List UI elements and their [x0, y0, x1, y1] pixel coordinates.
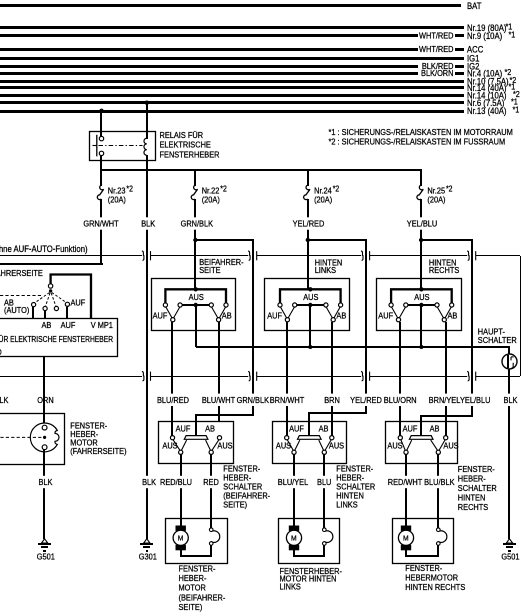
driver master switch terminal box: [0, 319, 118, 357]
relay contact blade: [96, 135, 98, 157]
Beifahrerseite common contacts: [179, 450, 183, 454]
svg-text:BLK: BLK: [504, 395, 519, 405]
wire label RED/BLU: [179, 476, 183, 488]
wire label BLU/YEL: [292, 476, 296, 488]
contact AUF (AUTO): [65, 302, 69, 306]
wire label BLU: [322, 476, 326, 488]
svg-text:(FAHRERSEITE): (FAHRERSEITE): [70, 447, 127, 457]
svg-text:*2: *2: [446, 184, 452, 194]
relay coil: [144, 138, 147, 155]
svg-text:HEBER-: HEBER-: [179, 574, 207, 584]
svg-text:*2: *2: [333, 184, 339, 194]
junction on bus Nr.6 (7.5A): [145, 101, 149, 105]
hinten rechts feed bar: [391, 289, 452, 305]
svg-text:BLK: BLK: [39, 478, 54, 488]
svg-text:BRN/WHT: BRN/WHT: [270, 395, 305, 405]
feed wire into master switch: [420, 240, 422, 290]
hinten rechts outer contacts: [389, 303, 393, 307]
junction feed split: [419, 238, 423, 242]
wire label BRN/WHT: [285, 394, 289, 406]
svg-text:FAHRERSEITE: FAHRERSEITE: [0, 268, 43, 278]
svg-text:BLU: BLU: [317, 478, 332, 488]
svg-text:LINKS: LINKS: [280, 582, 301, 592]
svg-text:FENSTERHEBER: FENSTERHEBER: [160, 150, 220, 160]
Beifahrerseite AUS output to bus: [195, 305, 197, 347]
connector break on bottom boundary: [142, 375, 151, 377]
svg-text:SCHALTER: SCHALTER: [478, 336, 517, 346]
connector break on top boundary: [248, 254, 257, 256]
svg-text:SEITE): SEITE): [223, 500, 247, 510]
YEL/BLU jog into rear-right door switch: [420, 415, 473, 417]
hinten rechts common contacts: [396, 318, 400, 322]
svg-text:GRN/BLK: GRN/BLK: [181, 219, 214, 229]
svg-text:SEITE: SEITE: [199, 265, 220, 275]
fuse feed line from relay: [100, 169, 422, 171]
svg-text:Nr.9 (10A): Nr.9 (10A): [467, 30, 502, 41]
driver switch positions dashed blades: [35, 293, 50, 304]
branch wire to door switch: [308, 239, 367, 241]
wire label BRN/YEL: [444, 394, 448, 406]
svg-text:YEL/RED: YEL/RED: [293, 219, 325, 229]
svg-text:Nr.24: Nr.24: [314, 186, 332, 196]
branch wire YEL/BLU vertical / HAUPTSCHALTER box left edge: [471, 240, 473, 416]
hinten rechts motor bottom wire: [405, 550, 407, 556]
door switch Beifahrerseite box: [159, 422, 234, 464]
relay actuation dash-dot link: [99, 145, 143, 147]
svg-text:YEL/BLU: YEL/BLU: [460, 395, 491, 405]
wire below fuse Nr.24: [307, 199, 309, 240]
svg-text:BLK: BLK: [0, 395, 9, 405]
contact AUF: [54, 306, 58, 310]
wire label BRN: [330, 394, 334, 406]
hinten rechts output wires: [405, 454, 407, 526]
relay contact terminals: [99, 136, 103, 140]
relay K1 RELAIS FUER ELEKTRISCHE FENSTERHEBER box: [90, 132, 156, 161]
svg-text:BLK: BLK: [142, 478, 157, 488]
connector break on top boundary: [361, 254, 370, 256]
svg-text:(20A): (20A): [427, 195, 445, 205]
hinten links output wires: [293, 454, 295, 526]
svg-text:AUS: AUS: [162, 441, 177, 451]
wire relay contact output: [100, 156, 102, 170]
master sub-switch Beifahrerseite box: [152, 279, 236, 331]
window motor Beifahrerseite box: [166, 519, 228, 564]
svg-text:G501: G501: [37, 552, 56, 562]
bus line Nr.6 (7.5A): [0, 101, 464, 104]
svg-text:BLU/WHT: BLU/WHT: [202, 395, 235, 405]
wire BRN/WHT: [286, 322, 288, 438]
bus line IG2: [0, 65, 418, 68]
hinten links AUF contact: [285, 436, 289, 440]
hinten rechts switch blades: [392, 307, 398, 318]
svg-text:BLK/ORN: BLK/ORN: [421, 69, 454, 79]
svg-text:(AUTO): (AUTO): [4, 305, 30, 315]
wire label BLU/ORN: [398, 394, 402, 406]
hinten links outer contacts: [278, 303, 282, 307]
svg-text:BLK: BLK: [141, 219, 156, 229]
svg-text:AUS: AUS: [303, 293, 318, 303]
driver sub-switch pivot: [48, 284, 52, 288]
svg-text:BRN/YEL: BRN/YEL: [429, 395, 461, 405]
wire from bus Nr.13 to relay contact: [100, 111, 102, 137]
svg-text:AB: AB: [41, 320, 51, 330]
window motor hinten rechts box: [393, 519, 454, 564]
svg-text:(20A): (20A): [314, 195, 332, 205]
contact AB: [43, 306, 47, 310]
wire BLU/WHT: [218, 322, 220, 422]
connector break on top boundary: [467, 254, 476, 256]
svg-text:FÜR ELEKTRISCHE FENSTERHEBER: FÜR ELEKTRISCHE FENSTERHEBER: [0, 334, 114, 344]
svg-text:SEITE): SEITE): [179, 603, 203, 612]
svg-text:AUF: AUF: [403, 424, 418, 434]
wire label RED/WHT: [404, 476, 408, 488]
svg-text:AUF: AUF: [153, 311, 168, 321]
wire BLU/ORN: [399, 322, 401, 438]
connector break on bottom boundary: [248, 375, 257, 377]
branch wire YEL/RED vertical: [365, 240, 367, 414]
master switch unit bottom boundary / connector row: [0, 376, 520, 377]
svg-text:AUF: AUF: [378, 311, 393, 321]
feed wire into master switch: [307, 240, 309, 290]
svg-text:HEBERMOTOR: HEBERMOTOR: [405, 573, 458, 583]
svg-text:RED/BLU: RED/BLU: [160, 478, 192, 488]
ground G501 driver: [41, 539, 47, 543]
window motor armature (M) with brushes: [401, 526, 411, 531]
wire feed line to fuse Nr.24: [307, 170, 309, 186]
hinten rechts AB contact: [444, 436, 448, 440]
svg-text:GRN/WHT: GRN/WHT: [83, 219, 118, 229]
connector grommet circle symbol: [502, 354, 517, 369]
wire relay coil to ground run (BLK): [146, 155, 148, 539]
feed wire into master switch: [194, 240, 196, 290]
svg-text:RECHTS: RECHTS: [429, 266, 459, 276]
svg-text:GRN/BLK: GRN/BLK: [237, 395, 270, 405]
hinten links switch blades: [280, 307, 286, 318]
hinten links motor bottom wire: [293, 550, 295, 556]
door switch hinten links box: [273, 422, 347, 464]
wire label RED: [209, 476, 213, 488]
svg-text:*1: *1: [509, 30, 516, 40]
wire label BLK: [507, 394, 511, 406]
circuit breaker (thermal protector) in motor: [324, 531, 333, 543]
svg-text:WHT/RED: WHT/RED: [419, 45, 454, 55]
wire label BLU/WHT: [217, 394, 221, 406]
door switch hinten rechts box: [386, 422, 458, 464]
svg-text:M: M: [403, 534, 409, 542]
svg-text:FENSTER-: FENSTER-: [179, 564, 216, 574]
svg-text:RELAIS FÜR: RELAIS FÜR: [160, 131, 204, 141]
svg-text:(20A): (20A): [108, 195, 126, 205]
wire feed line to fuse Nr.22: [194, 170, 196, 186]
connector break on bottom boundary: [467, 375, 476, 377]
svg-text:(BEIFAHRER-: (BEIFAHRER-: [179, 593, 226, 603]
AUS bus corner down to connector circle: [508, 347, 510, 354]
svg-text:M: M: [291, 534, 297, 542]
bus line Nr.4 (10A): [0, 72, 418, 75]
svg-text:Nr.25: Nr.25: [427, 186, 445, 196]
svg-text:V MP1: V MP1: [91, 320, 114, 330]
dashed linkage into driver motor: [0, 436, 42, 438]
svg-text:RED: RED: [203, 478, 219, 488]
svg-text:HINTEN: HINTEN: [458, 493, 486, 503]
driver window motor box: [0, 414, 65, 465]
junction feed split: [306, 238, 310, 242]
svg-text:YEL/RED: YEL/RED: [350, 395, 382, 405]
hinten links AUS output to bus: [309, 305, 311, 347]
connector break on top boundary: [142, 254, 151, 256]
wire label GRN/BLK: [251, 394, 255, 406]
svg-text:AB: AB: [430, 424, 440, 434]
master sub-switch hinten rechts box: [377, 279, 462, 331]
driver sub-switch feed to V MP1: [51, 275, 91, 319]
wire label YEL/RED: [364, 394, 368, 406]
wire BRN: [331, 322, 333, 438]
fuse Nr.25 (20A): [417, 185, 423, 200]
wire label BLK driver: [42, 476, 46, 488]
ground G501 main switch: [506, 539, 512, 543]
connector break on bottom boundary: [361, 375, 370, 377]
svg-text:AB: AB: [319, 424, 329, 434]
Beifahrerseite AUS bar: [180, 304, 211, 306]
svg-text:(ohne AUF-AUTO-Funktion): (ohne AUF-AUTO-Funktion): [0, 245, 88, 255]
wire ORN from master switch to driver motor: [43, 357, 45, 414]
HAUPTSCHALTER box right edge: [520, 256, 521, 376]
circuit breaker (thermal protector) in motor: [211, 531, 220, 543]
svg-text:MOTOR: MOTOR: [179, 583, 207, 593]
hinten rechts AUS feed bar: [409, 436, 433, 440]
svg-text:AUF: AUF: [61, 320, 76, 330]
GRN/WHT feed line into master switch: [0, 263, 103, 265]
wire below fuse Nr.25: [420, 199, 422, 240]
wire label YEL/BLU: [419, 217, 423, 229]
wire label ORN: [42, 394, 46, 406]
svg-text:ELEKTRISCHE: ELEKTRISCHE: [160, 140, 211, 150]
svg-text:*1 : SICHERUNGS-/RELAISKASTEN: *1 : SICHERUNGS-/RELAISKASTEN IM MOTORRA…: [329, 127, 514, 137]
svg-text:BLU/YEL: BLU/YEL: [278, 478, 309, 488]
svg-text:ORN: ORN: [37, 395, 54, 405]
svg-text:AUS: AUS: [217, 441, 232, 451]
branch wire to door switch: [421, 239, 473, 241]
svg-text:AUF: AUF: [176, 424, 191, 434]
window motor armature (M) with brushes: [176, 526, 186, 531]
bus line BAT: [0, 4, 461, 7]
svg-text:Nr.23: Nr.23: [108, 186, 126, 196]
svg-text:HEBER-: HEBER-: [458, 474, 486, 484]
svg-text:LINKS: LINKS: [315, 266, 336, 276]
svg-text:BLU/ORN: BLU/ORN: [384, 395, 417, 405]
svg-text:*2: *2: [220, 184, 226, 194]
svg-text:G501: G501: [501, 552, 520, 562]
svg-text:BLU/RED: BLU/RED: [157, 395, 189, 405]
bus line Nr.19 (80A): [0, 26, 464, 29]
fuse Nr.23 (20A): [97, 185, 103, 200]
hinten links common contacts: [285, 318, 289, 322]
hinten links AB contact: [330, 436, 334, 440]
master switch unit top boundary: [0, 255, 520, 256]
svg-text:FENSTER-: FENSTER-: [458, 465, 495, 475]
YEL/RED jog into rear-left door switch: [308, 412, 367, 414]
svg-text:*2: *2: [126, 184, 132, 194]
hinten links blades: [287, 440, 293, 451]
fuse Nr.24 (20A): [304, 185, 310, 200]
BLK wire driver motor to ground: [43, 449, 45, 539]
hinten links common contacts: [292, 450, 296, 454]
svg-text:LINKS: LINKS: [336, 500, 357, 510]
svg-text:AUS: AUS: [189, 293, 204, 303]
junction on bus Nr.13 (40A): [99, 109, 103, 113]
Beifahrerseite common contacts: [171, 318, 175, 322]
branch wire to door switch: [195, 239, 254, 241]
hinten links feed bar: [280, 289, 341, 305]
svg-text:AUF: AUF: [267, 311, 282, 321]
hinten rechts AUS output to bus: [420, 305, 422, 347]
wire below fuse Nr.23: [100, 199, 102, 263]
wire label BLK: [145, 476, 149, 488]
svg-text:YEL/BLU: YEL/BLU: [407, 219, 438, 229]
AUS bus line in master switch: [196, 346, 510, 348]
bus line Nr.13 (40A): [0, 110, 464, 113]
dashed linkage to auto-switch (left): [0, 295, 43, 297]
contact AB (AUTO): [31, 303, 35, 307]
svg-text:D: D: [0, 347, 2, 357]
svg-text:AB: AB: [205, 424, 215, 434]
svg-text:(20A): (20A): [202, 195, 220, 205]
wire label BLU/RED: [170, 394, 174, 406]
stub wires into switch body: [32, 307, 34, 319]
svg-text:AB: AB: [336, 311, 346, 321]
wire label YEL/RED: [306, 217, 310, 229]
svg-text:AB: AB: [222, 311, 232, 321]
hinten links AUS feed bar: [298, 436, 322, 440]
svg-text:BAT: BAT: [467, 0, 481, 11]
svg-text:*2 : SICHERUNGS-/RELAISKASTEN: *2 : SICHERUNGS-/RELAISKASTEN IM FUSSRAU…: [329, 137, 506, 147]
bus line Nr.14 (40A): [0, 86, 464, 89]
bus line Nr.9 (10A): [0, 34, 418, 37]
svg-text:AUS: AUS: [387, 441, 402, 451]
wire feed line to fuse Nr.25: [420, 170, 422, 186]
wire feed line to fuse Nr.23: [100, 170, 102, 186]
wire BLU/RED: [171, 322, 173, 438]
wire label BLK: [145, 217, 149, 229]
svg-text:AUF: AUF: [71, 298, 86, 308]
svg-text:FENSTER-: FENSTER-: [405, 563, 442, 573]
hinten rechts common contacts: [404, 450, 408, 454]
Beifahrerseite AB contact: [217, 436, 221, 440]
bus line ACC: [0, 48, 418, 51]
junction feed split: [193, 238, 197, 242]
svg-text:AUS: AUS: [443, 441, 458, 451]
svg-text:BRN: BRN: [324, 395, 340, 405]
svg-text:M: M: [178, 534, 184, 542]
wire from bus Nr.6 to relay coil: [146, 103, 148, 139]
Beifahrerseite AUS feed bar: [184, 436, 208, 440]
Beifahrerseite outer contacts: [163, 303, 167, 307]
hinten links AUS bar: [295, 304, 326, 306]
fuse Nr.22 (20A): [191, 185, 197, 200]
svg-text:Nr.13 (40A): Nr.13 (40A): [467, 105, 507, 116]
hinten rechts blades: [401, 440, 406, 451]
driver motor symbol: [43, 414, 45, 426]
Beifahrerseite feed bar: [165, 289, 226, 305]
svg-text:RECHTS: RECHTS: [458, 503, 488, 513]
svg-text:WHT/RED: WHT/RED: [419, 31, 454, 41]
wire below fuse Nr.22: [194, 199, 196, 240]
svg-text:Nr.22: Nr.22: [202, 186, 220, 196]
hinten rechts AUS bar: [406, 304, 437, 306]
Beifahrerseite switch blades: [166, 307, 172, 318]
Beifahrerseite AUF contact: [170, 436, 174, 440]
ground G301: [144, 539, 150, 543]
master sub-switch hinten links box: [265, 279, 350, 331]
hinten rechts AUF contact: [398, 436, 402, 440]
svg-text:BLU/BLK: BLU/BLK: [424, 478, 455, 488]
wire BRN/YEL: [445, 322, 447, 438]
BLK wire from main switch to ground: [508, 369, 510, 539]
window motor hinten links box: [279, 519, 340, 564]
wire label BLU/BLK: [436, 476, 440, 488]
wire label GRN/BLK: [193, 217, 197, 229]
wire label YEL/BLU: [470, 394, 474, 406]
svg-text:AB: AB: [448, 311, 458, 321]
Beifahrerseite output wires: [180, 454, 182, 526]
svg-text:RED/WHT: RED/WHT: [388, 478, 423, 488]
svg-text:AUF: AUF: [289, 424, 304, 434]
GRN/BLK jog into passenger door switch: [195, 414, 254, 416]
wire label GRN/WHT: [99, 217, 103, 229]
svg-text:AUS: AUS: [414, 293, 429, 303]
circuit breaker (thermal protector) in motor: [438, 531, 447, 543]
svg-text:SCHALTER: SCHALTER: [458, 484, 497, 494]
window motor armature (M) with brushes: [289, 526, 299, 531]
svg-text:HINTEN RECHTS: HINTEN RECHTS: [405, 582, 465, 592]
branch wire GRN/BLK vertical: [252, 240, 254, 415]
bus line IG1: [0, 57, 464, 60]
bus line Nr.14 (10A): [0, 94, 464, 97]
Beifahrerseite motor bottom wire: [180, 550, 182, 556]
Beifahrerseite blades: [173, 440, 180, 451]
svg-text:*1: *1: [513, 105, 520, 115]
svg-text:AUS: AUS: [329, 441, 344, 451]
svg-text:AUS: AUS: [276, 441, 291, 451]
bus line Nr.10 (7.5A): [0, 80, 464, 83]
svg-text:G301: G301: [139, 552, 158, 562]
